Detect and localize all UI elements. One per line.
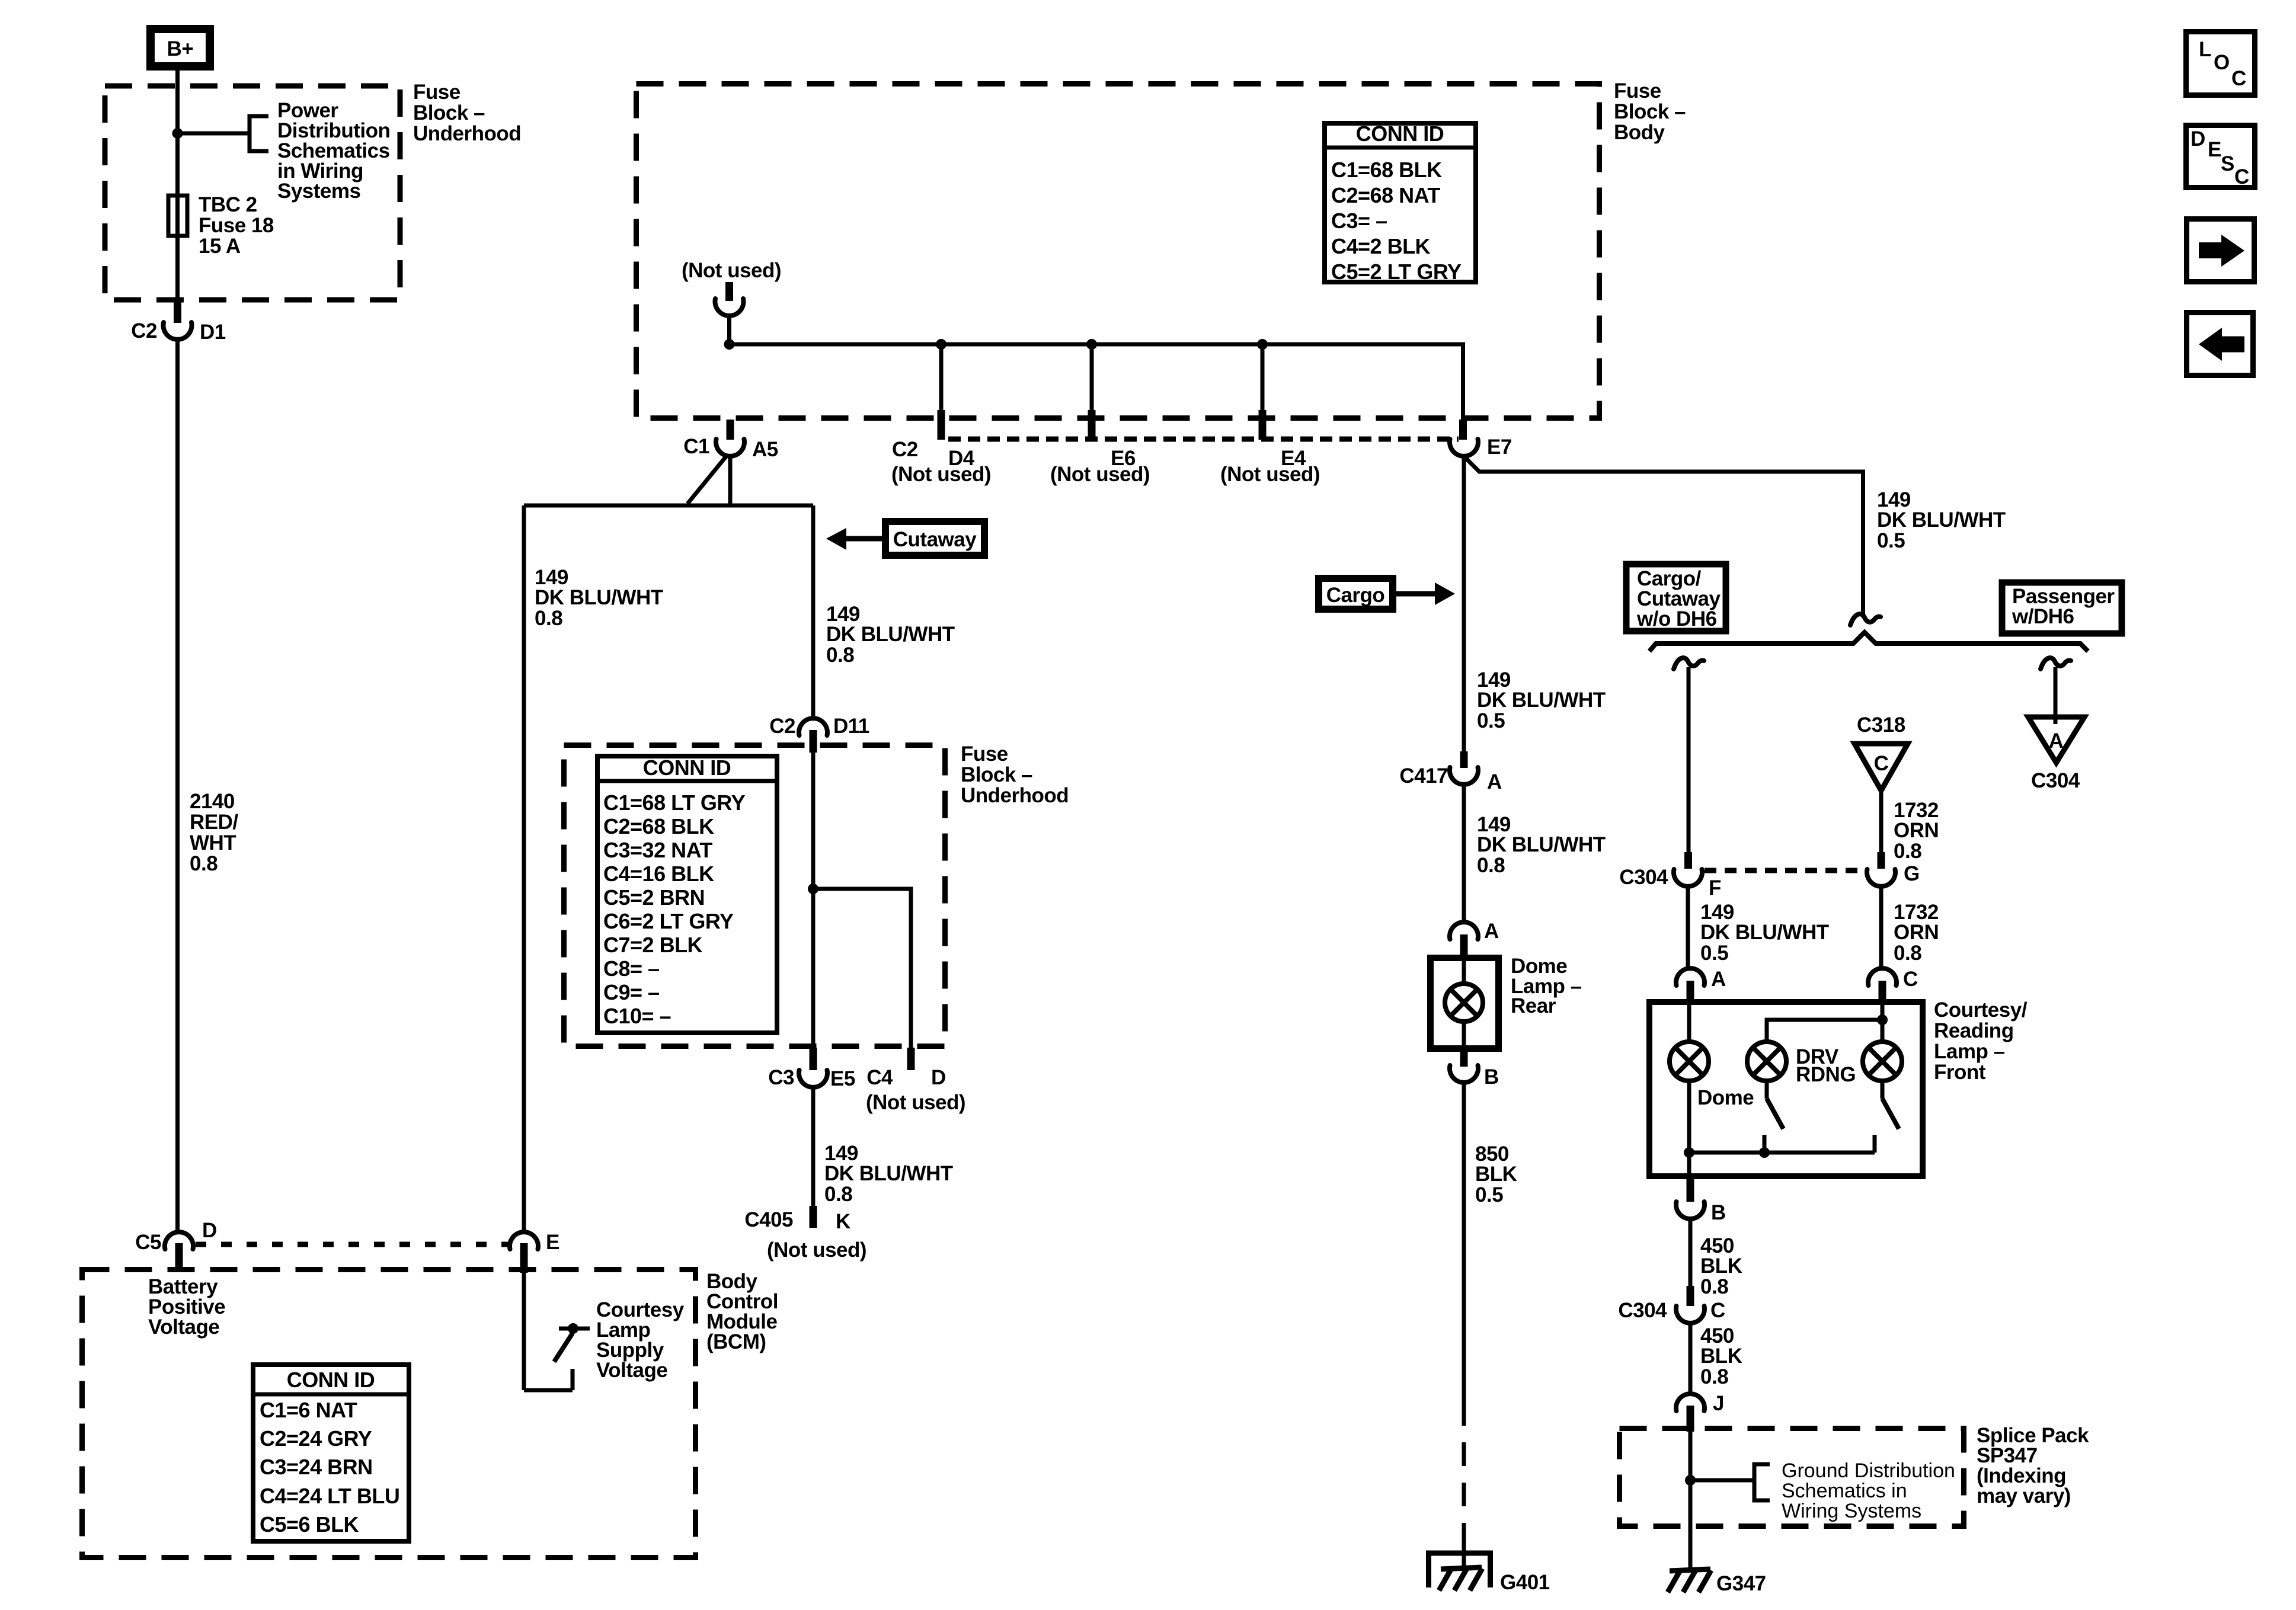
connector C2/D11 (799, 718, 827, 735)
connector face C2 dotted line (948, 437, 1459, 442)
wire from not-used pin to bus (727, 314, 731, 344)
svg-text:A: A (1711, 968, 1726, 991)
wire label 850 BLK 0.5 (1475, 1142, 1517, 1206)
svg-text:C2: C2 (131, 319, 157, 343)
ground case staple G401 (1429, 1553, 1491, 1587)
svg-text:CONN ID: CONN ID (1356, 121, 1444, 146)
node dot at C branch (1877, 1014, 1888, 1025)
svg-text:Fuse: Fuse (413, 81, 461, 104)
label Dome Lamp - Rear (1511, 955, 1582, 1017)
label Battery Positive Voltage (148, 1275, 225, 1339)
svg-text:C5=2 LT GRY: C5=2 LT GRY (1331, 260, 1462, 284)
svg-text:Cargo: Cargo (1326, 584, 1385, 607)
svg-text:DK BLU/WHT: DK BLU/WHT (1700, 921, 1829, 944)
node dot bus middle (1759, 1147, 1770, 1158)
break symbol left branch (1674, 658, 1704, 669)
svg-text:Ground Distribution: Ground Distribution (1782, 1459, 1955, 1482)
svg-text:C4=24 LT BLU: C4=24 LT BLU (260, 1484, 399, 1508)
svg-text:A5: A5 (752, 438, 778, 461)
label Courtesy/Reading Lamp - Front (1934, 998, 2028, 1084)
wire drop E6 (1090, 344, 1094, 412)
connector C304/C pin stub (1687, 1286, 1694, 1306)
connector C304/C (1676, 1306, 1705, 1323)
connector G (1867, 869, 1895, 886)
svg-text:0.5: 0.5 (1477, 709, 1505, 732)
wire label 149 DK BLU/WHT 0.5 right top (1877, 488, 2006, 552)
svg-text:C1=68 LT GRY: C1=68 LT GRY (603, 790, 746, 815)
wire drop E4 (1261, 344, 1265, 412)
svg-text:0.8: 0.8 (1894, 942, 1921, 965)
wire E5 down to C405 (811, 1086, 816, 1208)
svg-text:G401: G401 (1500, 1571, 1550, 1594)
courtesy reading lamp front box (1649, 1002, 1923, 1176)
wire D11 through fuse block (811, 751, 816, 1050)
svg-text:C2=68 NAT: C2=68 NAT (1331, 183, 1440, 207)
connector A at front lamp (1676, 968, 1705, 985)
not used pin stub (725, 282, 733, 301)
wire left branch down to C304 F (1687, 667, 1691, 856)
svg-text:(Not used): (Not used) (1050, 463, 1150, 486)
svg-text:G347: G347 (1716, 1572, 1766, 1595)
wire B+ down through fuse block (175, 66, 180, 302)
wire label 149 DK BLU/WHT 0.5 above C417 (1477, 668, 1606, 732)
svg-text:C4=2 BLK: C4=2 BLK (1331, 234, 1431, 258)
connector C304/F pin stub (1684, 852, 1692, 869)
svg-text:15 A: 15 A (199, 235, 241, 258)
connector A dome lamp rear (1450, 922, 1478, 939)
label Fuse Block - Underhood right (961, 742, 1069, 807)
svg-text:ORN: ORN (1894, 819, 1939, 842)
pin stub D4 (938, 410, 945, 440)
label Fuse Block - Body (1614, 79, 1686, 144)
svg-text:(Not used): (Not used) (891, 463, 991, 486)
wire label 149 DK BLU/WHT 0.8 middle (826, 603, 955, 667)
connector B front lamp pin stub (1687, 1178, 1694, 1202)
svg-text:CONN ID: CONN ID (287, 1368, 375, 1392)
svg-text:Courtesy/: Courtesy/ (1934, 998, 2028, 1022)
node dot first drop (724, 339, 735, 350)
wire 850 BLK down (1462, 1081, 1466, 1426)
svg-text:Underhood: Underhood (413, 122, 521, 145)
connector D11 pin stub (810, 730, 817, 753)
svg-text:BLK: BLK (1475, 1163, 1517, 1186)
svg-text:E5: E5 (830, 1067, 855, 1090)
wire C318 down to G (1879, 788, 1884, 856)
connector A pin stub (1687, 981, 1694, 1003)
svg-text:0.8: 0.8 (190, 852, 218, 875)
svg-text:C4=16 BLK: C4=16 BLK (603, 862, 714, 886)
connector A pin stub (1460, 934, 1468, 957)
svg-text:C304: C304 (1618, 1299, 1667, 1322)
wire C into box to junction (1881, 1003, 1885, 1042)
connector B front lamp (1676, 1202, 1705, 1219)
lamp dome rear (1445, 984, 1483, 1022)
connector E7 (1450, 439, 1478, 456)
body control module dashed box (82, 1270, 696, 1558)
wire split horizontal (524, 504, 813, 508)
wire C417 to dome lamp rear (1462, 783, 1466, 921)
node dot E4 drop (1257, 339, 1268, 350)
svg-text:C405: C405 (744, 1208, 793, 1231)
icon box DESC (2186, 126, 2255, 189)
svg-text:0.8: 0.8 (824, 1183, 852, 1206)
reference bracket Power Distribution (250, 116, 268, 151)
connector E7 pin stub (1459, 420, 1467, 440)
lamp Dome front (1670, 1042, 1709, 1081)
drawn-together connector line C5 to E (196, 1242, 509, 1247)
connector J (1676, 1394, 1705, 1411)
icon box arrow left (2187, 313, 2253, 376)
fuse TBC 2 Fuse 18 15 A (168, 196, 187, 236)
svg-text:Systems: Systems (277, 180, 361, 203)
bus wire in fuse block body (730, 344, 1463, 422)
switch right lamp (1875, 1081, 1899, 1153)
svg-text:E: E (2208, 138, 2221, 161)
fuse block underhood dashed box (105, 86, 400, 300)
battery feed B+ terminal (151, 29, 210, 66)
svg-text:0.8: 0.8 (826, 644, 854, 667)
wire label 149 DK BLU/WHT 0.8 lower middle (824, 1142, 953, 1206)
switch middle lamp (1764, 1081, 1783, 1153)
svg-text:Fuse: Fuse (961, 742, 1008, 766)
svg-text:(Not used): (Not used) (682, 259, 781, 282)
connector C1/A5 pin stub (727, 420, 734, 440)
svg-text:Fuse 18: Fuse 18 (199, 214, 274, 237)
connector E pin stub (520, 1243, 528, 1273)
svg-text:C8= –: C8= – (603, 956, 660, 981)
svg-text:Schematics in: Schematics in (1782, 1480, 1907, 1502)
connector C417/A pin stub (1460, 751, 1468, 768)
svg-text:0.8: 0.8 (1477, 854, 1505, 877)
pin stub E4 (1259, 410, 1267, 440)
icon box LOC (2186, 32, 2255, 95)
connector C2/D1 pin stub (174, 299, 181, 323)
svg-text:Cutaway: Cutaway (893, 528, 977, 551)
svg-text:Reading: Reading (1934, 1019, 2014, 1042)
fuse block underhood CONN ID table (595, 756, 779, 1033)
reference bracket Ground Distribution (1754, 1464, 1770, 1500)
label Body Control Module (BCM) (706, 1270, 778, 1353)
splice pack SP347 dashed box (1620, 1429, 1964, 1526)
wire J through splice pack to ground (1689, 1430, 1693, 1570)
courtesy lamp switch in BCM (524, 1323, 590, 1390)
svg-text:ORN: ORN (1894, 921, 1939, 944)
svg-text:Fuse: Fuse (1614, 79, 1661, 103)
wire dashed continuation to G401 (1462, 1426, 1466, 1541)
node dot in fuse block (808, 884, 818, 894)
connector C1/A5 (716, 439, 744, 456)
label Courtesy Lamp Supply Voltage (596, 1298, 685, 1382)
label Splice Pack SP347 (Indexing may vary) (1977, 1424, 2089, 1507)
svg-text:Block –: Block – (961, 763, 1032, 786)
label Ground Distribution Schematics in Wiring Systems (1782, 1459, 1955, 1522)
svg-text:L: L (2199, 38, 2211, 61)
svg-text:RED/: RED/ (190, 811, 238, 834)
wire E7 branch right (1464, 456, 1863, 617)
svg-text:0.5: 0.5 (1700, 942, 1728, 965)
svg-text:S: S (2221, 152, 2234, 175)
wire C304 C to splice pack J (1689, 1322, 1693, 1394)
wire label 450 BLK 0.8 upper (1700, 1234, 1742, 1298)
wire into rear lamp (1462, 957, 1466, 984)
connector not used pin (715, 299, 744, 316)
connector C304/F (1674, 869, 1702, 886)
node dot D4 drop (936, 339, 946, 350)
connector C pin stub (1879, 981, 1886, 1003)
svg-text:0.8: 0.8 (1894, 840, 1921, 863)
svg-text:C: C (1710, 1299, 1725, 1322)
BCM CONN ID table (251, 1365, 411, 1541)
svg-text:C7=2 BLK: C7=2 BLK (603, 933, 703, 957)
svg-text:Voltage: Voltage (596, 1359, 667, 1382)
svg-text:0.5: 0.5 (1475, 1183, 1503, 1206)
svg-text:0.8: 0.8 (1700, 1365, 1728, 1388)
wire G to lamp C (1879, 885, 1884, 969)
svg-text:Body: Body (1614, 121, 1665, 144)
svg-text:C304: C304 (1619, 866, 1668, 889)
svg-text:C5=6 BLK: C5=6 BLK (260, 1512, 359, 1537)
svg-text:B: B (1711, 1201, 1726, 1224)
wire left branch down to E (522, 505, 526, 1233)
svg-text:C318: C318 (1857, 713, 1905, 737)
connector C5/D pin stub (175, 1243, 183, 1269)
splice brace to both branches (1649, 632, 2088, 651)
svg-text:C2=68 BLK: C2=68 BLK (603, 814, 714, 838)
value label TBC 2 Fuse 18 15 A (199, 193, 274, 258)
connector G pin stub (1878, 852, 1885, 869)
svg-text:Voltage: Voltage (148, 1315, 219, 1339)
svg-text:(Not used): (Not used) (866, 1091, 965, 1114)
svg-text:D: D (2191, 127, 2205, 151)
wire label 1732 ORN 0.8 upper (1894, 799, 1939, 863)
ground G401 (1439, 1567, 1482, 1590)
svg-text:Underhood: Underhood (961, 784, 1069, 807)
icon box arrow right (2187, 219, 2255, 282)
node dot E6 drop (1086, 339, 1097, 350)
wire label 149 DK BLU/WHT 0.8 below C417 (1477, 813, 1606, 877)
wire label 149 DK BLU/WHT 0.5 at F (1700, 901, 1829, 965)
wire right branch into triangle (2054, 667, 2058, 724)
svg-text:A: A (2049, 729, 2064, 753)
wire 2140 RED/WHT down left side (175, 338, 180, 1231)
connector C2/D1 (164, 322, 192, 340)
svg-text:C3: C3 (768, 1066, 794, 1089)
svg-text:2140: 2140 (190, 790, 235, 813)
wire branch to C4 D (813, 889, 911, 1050)
wire label 450 BLK 0.8 lower (1700, 1324, 1742, 1388)
svg-text:RDNG: RDNG (1796, 1063, 1856, 1086)
drawn-together connector line F to G (1705, 868, 1866, 873)
wire A into dome lamp (1687, 1003, 1691, 1042)
svg-text:C1=68 BLK: C1=68 BLK (1331, 158, 1442, 182)
connector C3/E5 (799, 1070, 827, 1087)
svg-text:B+: B+ (167, 37, 194, 60)
connector C at front lamp (1868, 968, 1897, 985)
wire dome lamp to ground bus (1687, 1081, 1691, 1179)
svg-text:DK BLU/WHT: DK BLU/WHT (1877, 508, 2006, 532)
svg-text:C417: C417 (1399, 764, 1448, 788)
wire branch to middle lamp (1767, 1020, 1882, 1042)
wire label 1732 ORN 0.8 lower (1894, 901, 1939, 965)
label DRV RDNG (1796, 1045, 1856, 1086)
svg-text:Block –: Block – (1614, 100, 1686, 123)
svg-text:Front: Front (1934, 1061, 1986, 1084)
svg-text:Lamp –: Lamp – (1934, 1040, 2005, 1063)
svg-text:C: C (1874, 752, 1889, 775)
node junction on B+ feed (172, 128, 183, 139)
svg-text:G: G (1904, 862, 1920, 885)
svg-text:DK BLU/WHT: DK BLU/WHT (1477, 833, 1606, 856)
svg-text:DK BLU/WHT: DK BLU/WHT (535, 586, 663, 609)
svg-text:w/o DH6: w/o DH6 (1636, 607, 1717, 630)
wire F to lamp A (1686, 885, 1690, 969)
svg-text:0.8: 0.8 (535, 607, 562, 630)
break symbol right branch (2041, 658, 2071, 669)
wire splice to bracket (1690, 1478, 1754, 1483)
svg-text:C4: C4 (866, 1066, 893, 1089)
connector B rear (1450, 1065, 1478, 1083)
arrow Cargo (1394, 582, 1455, 605)
svg-text:K: K (836, 1210, 850, 1233)
svg-text:E7: E7 (1487, 436, 1512, 459)
Cargo/Cutaway w/o DH6 flag box (1626, 564, 1726, 631)
svg-text:0.8: 0.8 (1700, 1275, 1728, 1298)
svg-text:E: E (546, 1231, 559, 1254)
label Power Distribution Schematics in Wiring Systems (277, 99, 390, 203)
connector B rear pin stub (1460, 1050, 1468, 1067)
svg-text:C10= –: C10= – (603, 1004, 671, 1028)
wire rear lamp to B (1462, 1021, 1466, 1052)
svg-text:F: F (1709, 876, 1721, 900)
svg-text:(Not used): (Not used) (767, 1238, 866, 1262)
fuse block body CONN ID table (1322, 121, 1478, 284)
svg-text:BLK: BLK (1700, 1254, 1742, 1278)
wire A5 vertical to split (728, 455, 733, 505)
pin stub C4/D (907, 1048, 915, 1070)
svg-text:A: A (1487, 770, 1502, 793)
connector J pin stub (1687, 1406, 1694, 1432)
Cutaway flag box (885, 521, 984, 555)
svg-text:C2: C2 (769, 715, 795, 738)
wire E7 down to C417 (1462, 455, 1466, 754)
svg-text:D1: D1 (200, 321, 226, 344)
svg-text:Wiring Systems: Wiring Systems (1782, 1500, 1921, 1522)
lamp right courtesy (1863, 1042, 1902, 1081)
svg-text:C: C (2231, 67, 2246, 90)
svg-text:D: D (931, 1066, 946, 1089)
ground bus in lamp box (1689, 1151, 1875, 1155)
svg-text:CONN ID: CONN ID (643, 756, 731, 780)
svg-text:B: B (1484, 1065, 1499, 1089)
svg-text:C: C (1903, 968, 1918, 991)
svg-text:DK BLU/WHT: DK BLU/WHT (1477, 689, 1606, 712)
svg-text:may vary): may vary) (1977, 1484, 2071, 1507)
svg-text:Dome: Dome (1697, 1086, 1754, 1109)
svg-text:C9= –: C9= – (603, 980, 660, 1004)
svg-text:(Not used): (Not used) (1220, 463, 1320, 486)
svg-text:(BCM): (BCM) (706, 1330, 766, 1353)
svg-text:J: J (1713, 1392, 1724, 1415)
wire A5 diagonal branch (687, 455, 727, 504)
wire right branch down to D11 (811, 505, 816, 719)
svg-text:0.5: 0.5 (1877, 529, 1905, 552)
svg-text:C: C (2234, 165, 2249, 188)
svg-text:C2=24 GRY: C2=24 GRY (260, 1426, 372, 1451)
pin stub C405/K (810, 1206, 817, 1228)
svg-text:C6=2 LT GRY: C6=2 LT GRY (603, 909, 734, 933)
svg-text:C3=24 BRN: C3=24 BRN (260, 1455, 373, 1479)
label Fuse Block - Underhood (413, 81, 521, 145)
connector C5/D (165, 1232, 193, 1249)
svg-text:C2: C2 (892, 438, 918, 461)
svg-text:DK BLU/WHT: DK BLU/WHT (826, 623, 955, 646)
node dot splice (1685, 1475, 1696, 1486)
svg-text:C3= –: C3= – (1331, 209, 1387, 233)
connector C417/A (1450, 767, 1478, 785)
wire to reference bracket (178, 132, 250, 136)
break symbol on wire above brace (1850, 614, 1881, 625)
svg-text:C3=32 NAT: C3=32 NAT (603, 838, 712, 862)
svg-text:A: A (1484, 920, 1499, 943)
ground G347 (1668, 1569, 1711, 1592)
svg-text:C1: C1 (683, 435, 709, 458)
svg-text:Block –: Block – (413, 101, 485, 124)
svg-text:WHT: WHT (190, 831, 236, 854)
svg-text:O: O (2214, 51, 2230, 74)
off-page triangle A C304 (2028, 717, 2084, 792)
lamp DRV RDNG (1747, 1042, 1786, 1081)
off-page triangle C C318 (1854, 744, 1908, 790)
Passenger w/DH6 flag box (2002, 582, 2122, 633)
svg-text:C304: C304 (2031, 769, 2080, 792)
svg-text:C5: C5 (135, 1231, 161, 1254)
svg-text:D11: D11 (833, 715, 869, 738)
connector E of BCM (510, 1232, 538, 1249)
dome lamp rear box (1431, 958, 1499, 1049)
svg-text:w/DH6: w/DH6 (2012, 605, 2074, 628)
svg-text:Rear: Rear (1511, 994, 1556, 1017)
wire B to C304 C (1689, 1218, 1693, 1289)
fuse block underhood 2 dashed box (564, 745, 945, 1046)
arrow Cutaway (826, 528, 882, 550)
pin stub E6 (1088, 410, 1096, 440)
fuse block body dashed box (637, 84, 1600, 418)
svg-text:TBC 2: TBC 2 (199, 193, 257, 216)
wire drop D4 (939, 344, 944, 412)
wire E into BCM (522, 1273, 526, 1390)
svg-text:DK BLU/WHT: DK BLU/WHT (824, 1162, 953, 1185)
svg-text:C5=2 BRN: C5=2 BRN (603, 885, 705, 910)
svg-text:C1=6 NAT: C1=6 NAT (260, 1398, 357, 1422)
svg-text:BLK: BLK (1700, 1345, 1742, 1368)
node dot bus left (1684, 1147, 1694, 1158)
svg-text:D: D (202, 1219, 217, 1242)
wire label 2140 RED/WHT 0.8 (190, 790, 238, 875)
connector C3/E5 pin stub (810, 1048, 817, 1070)
Cargo flag box (1319, 578, 1393, 609)
wire label 149 DK BLU/WHT 0.8 left branch (535, 566, 663, 630)
